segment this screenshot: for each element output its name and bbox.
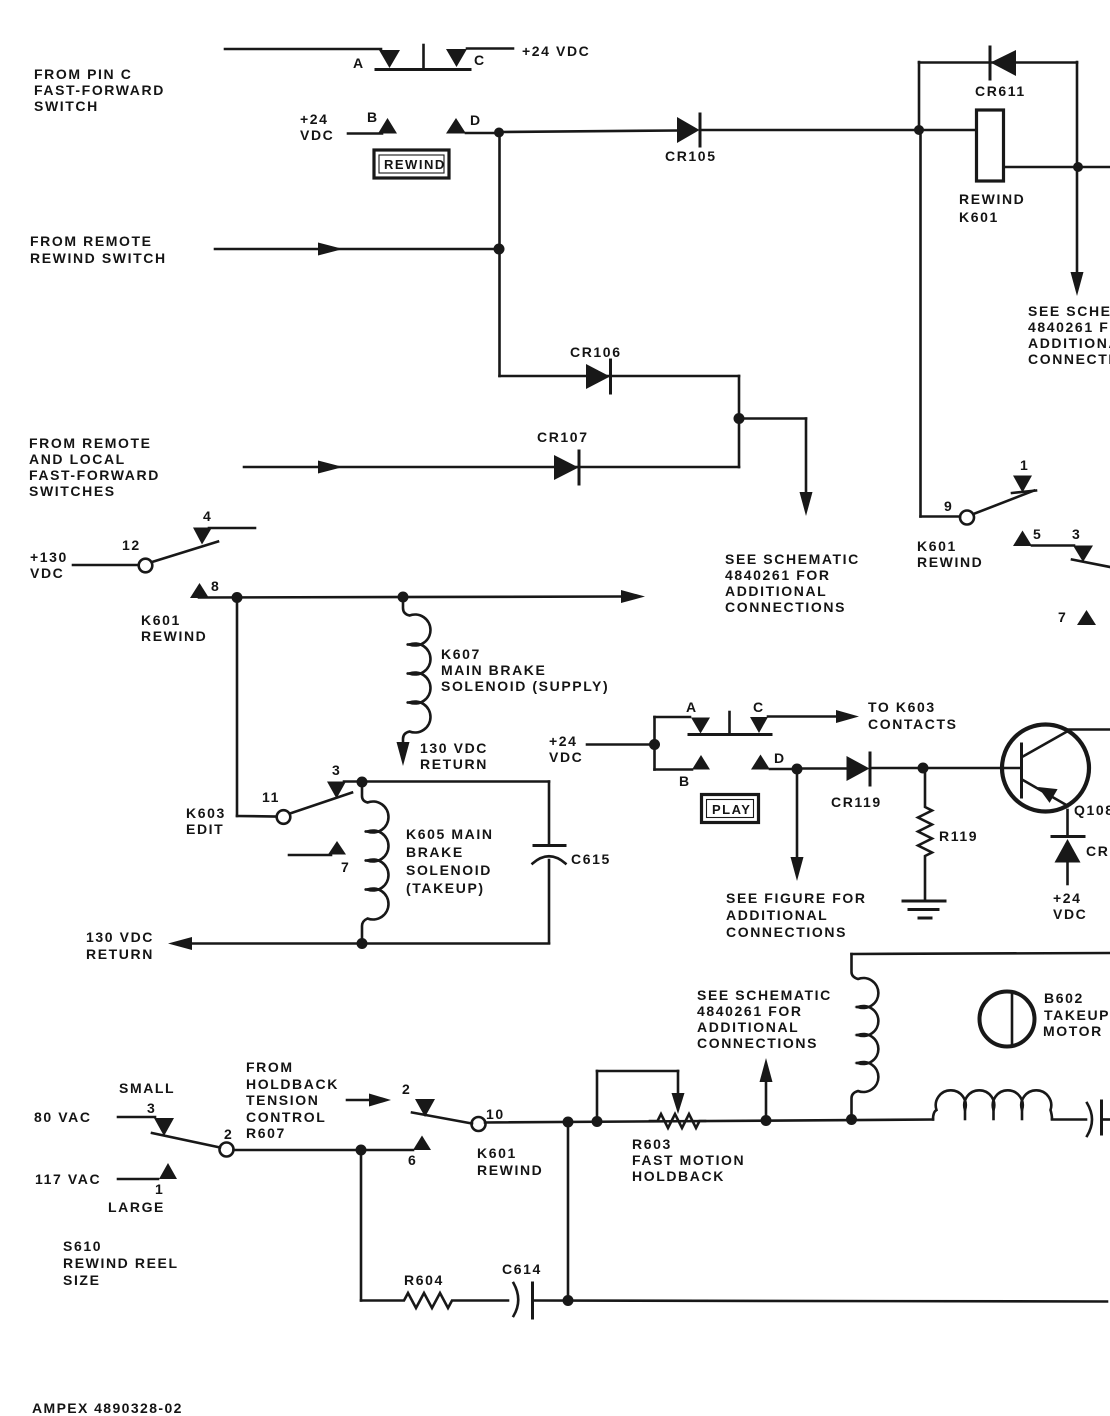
svg-text:+24: +24 xyxy=(1053,890,1082,906)
svg-text:C614: C614 xyxy=(502,1261,542,1277)
svg-text:MAIN BRAKE: MAIN BRAKE xyxy=(441,662,546,678)
svg-text:1: 1 xyxy=(1020,457,1029,473)
svg-text:SWITCHES: SWITCHES xyxy=(29,483,116,499)
svg-text:RETURN: RETURN xyxy=(420,756,488,772)
svg-text:CONNECTIONS: CONNECTIONS xyxy=(697,1035,818,1051)
svg-text:R119: R119 xyxy=(939,828,978,844)
svg-text:RETURN: RETURN xyxy=(86,946,154,962)
svg-text:B602: B602 xyxy=(1044,990,1084,1006)
svg-text:SIZE: SIZE xyxy=(63,1272,101,1288)
svg-text:FROM REMOTE: FROM REMOTE xyxy=(30,233,153,249)
svg-text:+24: +24 xyxy=(300,111,329,127)
svg-text:FAST-FORWARD: FAST-FORWARD xyxy=(34,82,165,98)
svg-text:FAST MOTION: FAST MOTION xyxy=(632,1152,745,1168)
svg-text:R607: R607 xyxy=(246,1125,286,1141)
svg-text:FROM PIN C: FROM PIN C xyxy=(34,66,132,82)
svg-text:4840261 FOR: 4840261 FOR xyxy=(725,567,831,583)
svg-text:REWIND REEL: REWIND REEL xyxy=(63,1255,179,1271)
svg-text:ADDITIONAL: ADDITIONAL xyxy=(725,583,827,599)
svg-text:9: 9 xyxy=(944,498,953,514)
svg-text:HOLDBACK: HOLDBACK xyxy=(632,1168,725,1184)
svg-text:A: A xyxy=(686,699,698,715)
svg-text:CONNECTIONS: CONNECTIONS xyxy=(725,599,846,615)
svg-text:CONTACTS: CONTACTS xyxy=(868,716,958,732)
svg-text:ADDITIONAL: ADDITIONAL xyxy=(726,907,828,923)
svg-text:C615: C615 xyxy=(571,851,611,867)
svg-text:10: 10 xyxy=(486,1106,505,1122)
svg-text:4: 4 xyxy=(203,508,212,524)
svg-text:8: 8 xyxy=(211,578,220,594)
svg-text:7: 7 xyxy=(1058,609,1067,625)
svg-text:CONNECTIONS: CONNECTIONS xyxy=(1028,351,1110,367)
svg-text:CR105: CR105 xyxy=(665,148,717,164)
svg-text:R603: R603 xyxy=(632,1136,672,1152)
svg-text:AND LOCAL: AND LOCAL xyxy=(29,451,126,467)
svg-text:K605 MAIN: K605 MAIN xyxy=(406,826,494,842)
svg-text:REWIND SWITCH: REWIND SWITCH xyxy=(30,250,167,266)
svg-text:VDC: VDC xyxy=(30,565,64,581)
svg-text:TAKEUP: TAKEUP xyxy=(1044,1007,1110,1023)
svg-text:130 VDC: 130 VDC xyxy=(420,740,488,756)
svg-text:2: 2 xyxy=(224,1126,233,1142)
svg-text:(TAKEUP): (TAKEUP) xyxy=(406,880,485,896)
svg-text:CR106: CR106 xyxy=(570,344,622,360)
svg-text:SEE SCHEMATIC: SEE SCHEMATIC xyxy=(725,551,860,567)
svg-text:FROM: FROM xyxy=(246,1059,294,1075)
svg-text:ADDITIONAL: ADDITIONAL xyxy=(697,1019,799,1035)
svg-text:FAST-FORWARD: FAST-FORWARD xyxy=(29,467,160,483)
svg-text:K601: K601 xyxy=(959,209,999,225)
svg-text:+130: +130 xyxy=(30,549,68,565)
svg-text:D: D xyxy=(470,112,482,128)
svg-text:REWIND: REWIND xyxy=(141,628,207,644)
svg-text:LARGE: LARGE xyxy=(108,1199,165,1215)
svg-text:TENSION: TENSION xyxy=(246,1092,319,1108)
svg-text:SWITCH: SWITCH xyxy=(34,98,99,114)
svg-text:SOLENOID: SOLENOID xyxy=(406,862,492,878)
svg-text:CR119: CR119 xyxy=(831,794,882,810)
svg-text:K601: K601 xyxy=(141,612,181,628)
svg-text:11: 11 xyxy=(262,789,280,805)
svg-text:REWIND: REWIND xyxy=(477,1162,543,1178)
svg-text:K601: K601 xyxy=(917,538,957,554)
svg-text:K607: K607 xyxy=(441,646,481,662)
svg-text:3: 3 xyxy=(332,762,341,778)
svg-text:B: B xyxy=(679,773,691,789)
svg-text:PLAY: PLAY xyxy=(712,802,751,817)
svg-text:SOLENOID (SUPPLY): SOLENOID (SUPPLY) xyxy=(441,678,609,694)
svg-text:5: 5 xyxy=(1033,526,1042,542)
svg-text:VDC: VDC xyxy=(1053,906,1087,922)
svg-text:130 VDC: 130 VDC xyxy=(86,929,154,945)
svg-text:4840261 FOR: 4840261 FOR xyxy=(1028,319,1110,335)
svg-text:12: 12 xyxy=(122,537,141,553)
svg-text:4840261 FOR: 4840261 FOR xyxy=(697,1003,803,1019)
svg-text:80 VAC: 80 VAC xyxy=(34,1109,92,1125)
svg-text:C: C xyxy=(474,52,486,68)
svg-text:D: D xyxy=(774,750,786,766)
svg-text:7: 7 xyxy=(341,859,350,875)
svg-text:S610: S610 xyxy=(63,1238,102,1254)
svg-text:C: C xyxy=(753,699,765,715)
svg-text:REWIND: REWIND xyxy=(959,191,1025,207)
svg-text:6: 6 xyxy=(408,1152,417,1168)
svg-text:ADDITIONAL: ADDITIONAL xyxy=(1028,335,1110,351)
svg-text:SEE FIGURE FOR: SEE FIGURE FOR xyxy=(726,890,867,906)
svg-text:FROM REMOTE: FROM REMOTE xyxy=(29,435,152,451)
svg-text:HOLDBACK: HOLDBACK xyxy=(246,1076,339,1092)
svg-text:K603: K603 xyxy=(186,805,226,821)
svg-text:CR107: CR107 xyxy=(537,429,589,445)
svg-text:+24 VDC: +24 VDC xyxy=(522,43,590,59)
svg-text:2: 2 xyxy=(402,1081,411,1097)
svg-text:SMALL: SMALL xyxy=(119,1080,175,1096)
svg-text:REWIND: REWIND xyxy=(384,157,446,172)
svg-text:TO K603: TO K603 xyxy=(868,699,936,715)
svg-text:VDC: VDC xyxy=(549,749,583,765)
svg-text:BRAKE: BRAKE xyxy=(406,844,464,860)
svg-text:CONNECTIONS: CONNECTIONS xyxy=(726,924,847,940)
svg-text:CR: CR xyxy=(1086,843,1109,859)
svg-text:117 VAC: 117 VAC xyxy=(35,1171,101,1187)
svg-text:3: 3 xyxy=(147,1100,156,1116)
svg-text:1: 1 xyxy=(155,1181,164,1197)
svg-text:EDIT: EDIT xyxy=(186,821,224,837)
svg-text:Q108: Q108 xyxy=(1074,802,1110,818)
svg-text:CR611: CR611 xyxy=(975,83,1026,99)
svg-text:AMPEX 4890328-02: AMPEX 4890328-02 xyxy=(32,1400,183,1416)
svg-text:A: A xyxy=(353,55,365,71)
svg-text:REWIND: REWIND xyxy=(917,554,983,570)
svg-text:R604: R604 xyxy=(404,1272,444,1288)
svg-text:B: B xyxy=(367,109,379,125)
svg-text:K601: K601 xyxy=(477,1145,517,1161)
svg-text:VDC: VDC xyxy=(300,127,334,143)
svg-text:CONTROL: CONTROL xyxy=(246,1109,326,1125)
svg-text:3: 3 xyxy=(1072,526,1081,542)
svg-text:MOTOR: MOTOR xyxy=(1043,1023,1103,1039)
svg-text:+24: +24 xyxy=(549,733,578,749)
svg-text:SEE SCHEMATIC: SEE SCHEMATIC xyxy=(697,987,832,1003)
svg-text:SEE SCHEMATIC: SEE SCHEMATIC xyxy=(1028,303,1110,319)
